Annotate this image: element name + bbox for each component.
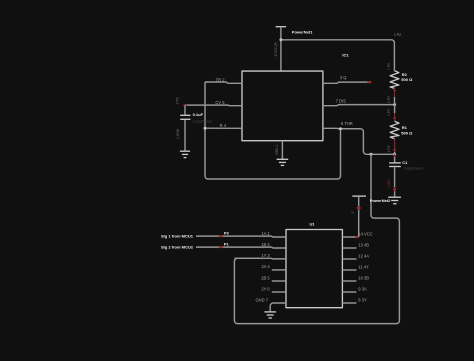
svg-text:500 Ω: 500 Ω [401,130,413,135]
svg-text:0.1uF: 0.1uF [193,112,204,117]
pin 12 4A [342,253,369,259]
svg-text:PowerNet2: PowerNet2 [370,198,391,203]
svg-text:CV 5: CV 5 [215,100,225,105]
ground under IC1 [277,159,289,165]
port P3 [218,235,223,238]
svg-text:1 P2: 1 P2 [394,33,401,37]
svg-text:1A 1: 1A 1 [261,231,270,236]
svg-text:8 VCC(P): 8 VCC(P) [274,42,278,57]
svg-text:12 4A: 12 4A [358,253,369,258]
resistor R2 [390,71,399,105]
power flag PowerNet1 [276,27,286,71]
svg-text:1Y 3: 1Y 3 [261,253,270,258]
svg-text:2 P2: 2 P2 [387,96,391,103]
pin 13 4B [342,242,369,248]
svg-text:U1: U1 [310,222,316,227]
pin 7 DIS [323,98,395,105]
svg-text:R 4: R 4 [220,123,227,128]
svg-text:TR 2: TR 2 [216,78,226,83]
port P1 [218,246,223,249]
junction feedback [370,153,373,156]
svg-text:8 3Y: 8 3Y [358,297,367,302]
pin 11 4Y [342,264,369,270]
svg-text:Sig 2 from MCU2: Sig 2 from MCU2 [161,244,194,249]
junction [279,38,282,41]
svg-text:GND 1: GND 1 [275,144,279,154]
ground under U1 pin7 [264,312,276,318]
resistor R1 [390,105,399,155]
svg-text:11 4Y: 11 4Y [358,264,369,269]
svg-text:2A 4: 2A 4 [261,264,270,269]
pin 8 3Y [342,297,367,303]
wire THR to R1 bottom [360,129,394,155]
junction THR [339,127,342,130]
svg-text:13 4B: 13 4B [358,242,369,247]
net port on Q [367,81,372,84]
net port on VCC wire [356,206,361,210]
wire feedback 1Y to THR node [234,154,399,323]
svg-text:P1: P1 [224,241,230,246]
svg-text:P3: P3 [224,230,230,235]
ground under 0.1uF capacitor [180,151,190,157]
svg-text:2 P2: 2 P2 [387,145,391,152]
svg-text:IC1: IC1 [342,52,349,57]
junction R1-C1 node [393,153,396,156]
junction DIS / R2-R1 node [393,103,396,106]
svg-text:GND 7: GND 7 [255,297,268,302]
pin 5 2B [261,275,286,281]
svg-text:3 Q: 3 Q [340,75,347,80]
svg-text:Capacitance: Capacitance [404,167,424,171]
pin 2 TR [205,78,242,84]
pin 9 3A [342,286,367,292]
pin 2 1B [196,242,286,248]
pin 1 1A [196,231,286,237]
wire VCC rail to R2 [281,40,395,71]
svg-text:GND: GND [387,179,391,187]
pin 5 CV [185,100,242,106]
logic IC U1 (7400) body [286,230,342,308]
capacitor 0.1uF (CV decoupling) [180,105,190,151]
svg-text:Capacitance: Capacitance [192,119,212,123]
timer IC1 (NE555) body [242,71,323,141]
svg-text:2: 2 [351,212,355,214]
svg-text:PowerNet1: PowerNet1 [292,30,313,35]
svg-text:14 VCC: 14 VCC [358,231,372,236]
pin 4 R [205,123,242,129]
svg-text:6 THR: 6 THR [341,121,353,126]
svg-text:500 Ω: 500 Ω [401,77,413,82]
pin 7 GND [255,297,286,311]
pin 4 2A [261,264,286,270]
pin 14 VCC [342,231,372,238]
svg-text:7 DIS: 7 DIS [336,98,347,103]
pin 3 Q [323,75,369,83]
svg-text:1 GND: 1 GND [176,128,180,139]
svg-text:1B 2: 1B 2 [261,242,270,247]
junction R pin [204,127,207,130]
svg-text:2 P2: 2 P2 [176,97,180,104]
wire IC1 pin 1 GND [281,141,283,160]
svg-text:1 P2: 1 P2 [387,63,391,70]
pin 10 3B [342,275,369,281]
ground under C1 [388,197,401,204]
svg-text:10 3B: 10 3B [358,275,369,280]
pin 6 THR [323,121,361,129]
wire TR loop [205,82,341,179]
pin 6 2Y [261,286,286,292]
pin 3 1Y [234,253,286,259]
svg-text:2Y 6: 2Y 6 [261,286,270,291]
svg-text:2B 5: 2B 5 [261,275,270,280]
svg-text:9 3A: 9 3A [358,286,367,291]
svg-text:C1: C1 [402,160,408,165]
power flag PowerNet2 [352,196,366,237]
svg-text:Sig 1 from MCU1: Sig 1 from MCU1 [161,233,194,238]
port P2 [183,104,188,107]
capacitor C1 [389,154,401,197]
svg-text:1 P2: 1 P2 [387,109,391,116]
